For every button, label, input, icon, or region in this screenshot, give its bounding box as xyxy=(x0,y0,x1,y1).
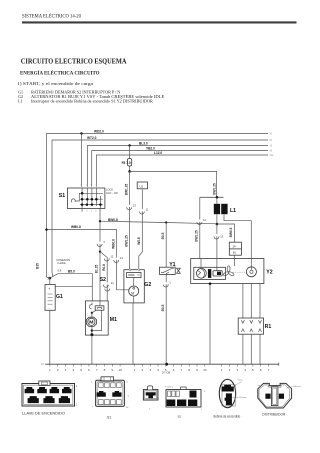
motor M ring xyxy=(86,317,96,326)
fuse F8 lead xyxy=(129,146,131,159)
distributor black pin right xyxy=(279,394,284,399)
svg-text:WB0.8: WB0.8 xyxy=(111,239,115,249)
svg-text:9: 9 xyxy=(196,368,198,372)
coil connector top pin hat xyxy=(222,385,234,392)
node fuse output junction xyxy=(128,170,131,173)
svg-text:6: 6 xyxy=(173,368,175,372)
node M1 coil junction xyxy=(91,312,93,314)
svg-text:B35: B35 xyxy=(35,263,39,269)
svg-text:YB2.0: YB2.0 xyxy=(146,146,155,150)
svg-text:L12.0: L12.0 xyxy=(154,151,162,155)
G2 rotor circle xyxy=(129,286,139,296)
wire battery positive link xyxy=(55,285,92,287)
svg-text:B5.0: B5.0 xyxy=(68,269,75,273)
svg-text:F8 7.5: F8 7.5 xyxy=(122,161,131,165)
svg-text:Folismo: Folismo xyxy=(239,397,247,399)
wire L1 left terminal drop to Y2 xyxy=(199,197,201,258)
Y2 inner assembly box xyxy=(194,267,226,279)
svg-text:6: 6 xyxy=(88,368,90,372)
distributor connector shell octagon xyxy=(258,383,292,408)
svg-text:Y2: Y2 xyxy=(266,270,272,276)
S1 connector top row cavities xyxy=(99,383,122,388)
svg-text:S2: S2 xyxy=(178,415,182,419)
Y2 rotor to cap dashed link xyxy=(233,271,246,273)
svg-text:BW0.5: BW0.5 xyxy=(229,227,233,237)
connector cup on S2 chain xyxy=(97,240,105,246)
G2 brush dot xyxy=(133,287,135,289)
R1 contact arrows xyxy=(241,320,261,332)
node ground rail junction xyxy=(165,363,168,366)
coil L1 winding blocks xyxy=(214,204,220,214)
wire Y2 ground xyxy=(209,284,211,365)
Y1 switch diagonal xyxy=(161,269,174,273)
svg-text:4: 4 xyxy=(72,368,74,372)
S1 connector latch tab xyxy=(101,377,114,381)
small connector latch tab xyxy=(148,386,153,390)
wire W1 drop to battery xyxy=(47,277,50,278)
ruler ticks xyxy=(50,364,269,366)
node battery positive junction xyxy=(49,277,52,280)
battery G1 box xyxy=(45,285,55,311)
connector cup on diagnostic drop xyxy=(139,208,148,214)
svg-text:G2: G2 xyxy=(144,282,151,288)
ignition coil connector oval xyxy=(219,379,235,407)
svg-text:R1: R1 xyxy=(265,324,272,330)
small connector black pin xyxy=(146,392,156,398)
Y2 pickup detail xyxy=(198,269,205,277)
valve Y1 solenoid box xyxy=(160,267,176,274)
svg-text:Fusible: Fusible xyxy=(57,261,66,265)
svg-text:8: 8 xyxy=(188,368,190,372)
svg-text:B0.5: B0.5 xyxy=(161,304,165,311)
svg-text:1: 1 xyxy=(49,368,51,372)
G2 terminal posts xyxy=(129,269,131,271)
S1 contact dots row3 xyxy=(81,203,84,206)
starter M1 box xyxy=(85,301,108,335)
small 1P connector shell xyxy=(143,390,158,400)
ignition key connector shell xyxy=(22,384,75,407)
relay connector top tabs xyxy=(181,387,187,390)
svg-text:S2: S2 xyxy=(100,277,106,283)
S1 connector shell xyxy=(96,380,125,406)
svg-text:SISTEMA ELÉCTRICO 14-20: SISTEMA ELÉCTRICO 14-20 xyxy=(22,13,82,19)
wire G2 ground xyxy=(133,296,135,303)
wire fuse to node xyxy=(129,166,131,171)
svg-text:10: 10 xyxy=(203,368,207,372)
L1 primary lead xyxy=(216,197,218,204)
svg-text:G1: G1 xyxy=(56,294,63,300)
node L1 primary junction xyxy=(216,196,219,199)
node Y2 ground junction xyxy=(209,282,212,285)
ignition key pins top row xyxy=(25,387,72,393)
ignition key connector latch tab xyxy=(39,381,50,385)
wire L1 center drop to Y2 xyxy=(216,224,218,258)
svg-text:7: 7 xyxy=(268,368,270,372)
svg-text:1: 1 xyxy=(134,368,136,372)
wire W2 drop to link xyxy=(51,273,54,277)
wire W2 WT2.0 bus xyxy=(52,140,268,273)
svg-text:ACC - ON: ACC - ON xyxy=(106,191,118,195)
svg-text:LLAVE DE ENCENDIDO: LLAVE DE ENCENDIDO xyxy=(22,410,65,415)
svg-text:R0.8: R0.8 xyxy=(102,264,106,271)
relay connector black pins bottom xyxy=(167,400,176,407)
svg-text:8: 8 xyxy=(104,368,106,372)
connector cup S2 upper xyxy=(104,255,114,261)
wire L1 secondary high tension xyxy=(224,215,251,267)
S1 contact dots row1 xyxy=(81,192,84,195)
svg-text:WT2.0: WT2.0 xyxy=(87,136,97,140)
pin terminal labels at bus right ends xyxy=(270,134,275,158)
svg-text:7: 7 xyxy=(96,368,98,372)
node S2 tap xyxy=(99,251,101,253)
motor M circle xyxy=(88,318,95,325)
fusible link element xyxy=(48,274,58,280)
node S1 output junction xyxy=(99,220,101,222)
svg-text:9: 9 xyxy=(111,368,113,372)
svg-text:L1: L1 xyxy=(18,99,23,104)
svg-text:M1: M1 xyxy=(110,317,117,323)
svg-text:5: 5 xyxy=(80,368,82,372)
relay connector black pin top xyxy=(190,391,197,398)
Y2 rotor lobes xyxy=(223,266,235,277)
ignition key pins bottom row xyxy=(28,396,70,403)
wire regulator to rotor xyxy=(133,278,135,286)
wire W1 WD2.0 bus xyxy=(47,134,269,278)
svg-text:BW1.25: BW1.25 xyxy=(124,184,128,196)
wire S1 pin1 drop xyxy=(81,134,83,187)
wire Y2 internal feeds xyxy=(200,259,202,269)
connector cup S2 lower b xyxy=(105,289,110,292)
connector cup below Y1 xyxy=(163,281,171,287)
wire L1 bottom lead xyxy=(216,214,218,224)
connector cup on fuse drop xyxy=(127,203,137,209)
svg-text:S1: S1 xyxy=(107,415,111,419)
wire S1-S2 chain xyxy=(99,221,101,301)
wire from diagnostic box to G2 xyxy=(141,190,143,253)
svg-text:5: 5 xyxy=(165,368,167,372)
svg-text:L1: L1 xyxy=(230,208,236,214)
svg-text:2P: 2P xyxy=(233,244,236,248)
svg-text:Interruptor de encendido Bobin: Interruptor de encendido Bobina de encen… xyxy=(31,99,153,104)
node M1 return junction xyxy=(91,329,93,331)
connector cup on WB0.8 drop xyxy=(114,256,124,262)
svg-text:W0.8: W0.8 xyxy=(137,237,141,245)
svg-text:M: M xyxy=(89,320,94,325)
Y2 module outline xyxy=(213,271,222,276)
resistor block R1 box xyxy=(238,318,263,334)
ruler end label D4 xyxy=(278,363,280,366)
wire Y1 to ground rail xyxy=(165,275,167,364)
svg-text:10: 10 xyxy=(118,368,122,372)
connector cup on L1 center drop xyxy=(214,234,224,239)
svg-text:BW1.25: BW1.25 xyxy=(194,230,198,242)
distributor center slot xyxy=(271,387,278,406)
svg-text:B1.25: B1.25 xyxy=(95,265,99,274)
svg-text:WD2.0: WD2.0 xyxy=(94,129,104,133)
svg-text:3: 3 xyxy=(65,368,67,372)
svg-text:1: 1 xyxy=(221,368,223,372)
S1 contact row lines xyxy=(82,192,103,194)
node M1 ground junction xyxy=(90,333,93,336)
wire W5 L12.0 bus xyxy=(96,155,268,187)
svg-text:Vista: Vista xyxy=(238,379,244,382)
G2 regulator contact dashes xyxy=(128,274,134,276)
svg-text:M: M xyxy=(131,292,134,296)
Y2 igniter black block xyxy=(208,269,211,278)
S1 key linkage xyxy=(75,193,82,201)
svg-text:4: 4 xyxy=(244,368,246,372)
svg-text:BL3.0: BL3.0 xyxy=(139,141,148,145)
svg-text:B1: B1 xyxy=(233,250,237,254)
wire BW0.8 accessory rail from S1 xyxy=(100,221,217,224)
svg-text:Folismo: Folismo xyxy=(293,386,301,388)
svg-text:6: 6 xyxy=(260,368,262,372)
S1 connector pin numbers xyxy=(91,382,130,410)
node junction on W3 at fuse tap xyxy=(128,144,130,146)
svg-text:B0.5: B0.5 xyxy=(161,232,165,239)
Y2 module chip xyxy=(217,272,221,275)
pin numbers above S1 xyxy=(80,185,97,187)
wire L1 to noise filter column xyxy=(217,224,235,242)
svg-text:U2: U2 xyxy=(139,184,143,188)
M1 solenoid coil hook xyxy=(89,303,92,309)
node Y1 branch junction xyxy=(165,221,167,223)
S1 key symbol xyxy=(71,199,75,202)
ground rail ruler line xyxy=(45,363,278,365)
M1 contact return wire xyxy=(92,310,102,330)
S1 connector middle black pins xyxy=(97,391,106,397)
wire fused feed to L1 xyxy=(130,171,217,197)
svg-text:4: 4 xyxy=(157,368,159,372)
M1 contact box xyxy=(95,306,104,310)
ruler numbers xyxy=(49,368,270,372)
wire battery post xyxy=(49,278,51,284)
alternator G2 box xyxy=(124,270,144,303)
relay connector top cavities xyxy=(168,391,180,397)
wire battery ground xyxy=(49,310,51,364)
connector cup on L1 left drop xyxy=(197,218,207,224)
svg-text:BW0.8: BW0.8 xyxy=(108,218,118,222)
wire S2 link xyxy=(100,252,107,301)
S1 connector bottom row cavities xyxy=(99,400,122,405)
svg-text:5: 5 xyxy=(252,368,254,372)
wire coil junction to motor xyxy=(91,313,93,317)
svg-text:2: 2 xyxy=(142,368,144,372)
svg-text:BW1.25: BW1.25 xyxy=(124,235,128,247)
wire Y2 to R1 feeds xyxy=(242,284,244,318)
distributor black pin left xyxy=(265,394,270,399)
battery G1 cell dashes xyxy=(48,294,53,304)
Y2 pickup coil circle xyxy=(197,268,207,278)
wire B5.0 feed to starter xyxy=(58,274,92,301)
M1 coil to contact link xyxy=(92,310,96,312)
wire WB0.8 battery tap rail xyxy=(47,230,129,290)
S1 internal column wires xyxy=(81,188,83,212)
svg-text:3: 3 xyxy=(149,368,151,372)
svg-text:WB0.8: WB0.8 xyxy=(71,225,81,229)
coil connector cavity outline xyxy=(222,385,235,406)
wire W3 BL3.0 bus xyxy=(87,146,268,187)
svg-text:2: 2 xyxy=(229,368,231,372)
filter 2P connector box xyxy=(229,242,241,255)
connector cup S2 lower a xyxy=(103,281,114,287)
svg-text:Bobina de encendido: Bobina de encendido xyxy=(214,414,241,418)
svg-text:2: 2 xyxy=(57,368,59,372)
wire Y1 feed drop xyxy=(165,223,167,268)
Y2 cap circle xyxy=(246,267,256,277)
svg-text:DISTRIBUIDOR: DISTRIBUIDOR xyxy=(262,411,285,416)
svg-text:3: 3 xyxy=(236,368,238,372)
ignition coil L1 top rail xyxy=(200,196,224,198)
relay connector shell xyxy=(166,390,201,408)
svg-text:CIRCUITO ELECTRICO ESQUEMA: CIRCUITO ELECTRICO ESQUEMA xyxy=(21,58,127,65)
switch S1 box xyxy=(67,188,105,208)
node junction on W1 at S1 feed xyxy=(80,132,82,134)
header rule xyxy=(22,21,297,23)
svg-text:7: 7 xyxy=(181,368,183,372)
G2 regulator box xyxy=(127,273,141,278)
Y2 cap center electrode xyxy=(250,270,253,273)
wire S2 feed into contact xyxy=(99,301,101,306)
wire fused drop to G2 regulator xyxy=(129,171,131,269)
Y1 valve hourglass xyxy=(177,268,181,273)
coil connector center pin xyxy=(225,393,232,405)
svg-text:S1: S1 xyxy=(59,193,65,199)
diagnostic connector box 12 xyxy=(137,182,147,189)
svg-text:Folismo: Folismo xyxy=(165,387,173,389)
wire motor to bottom xyxy=(91,326,93,336)
svg-text:ENERGÍA ELÉCTRICA CIRCUITO: ENERGÍA ELÉCTRICA CIRCUITO xyxy=(20,68,100,76)
node L1 low junction xyxy=(216,223,219,226)
wire filter to Y2 xyxy=(234,255,236,258)
wire R1 to ground rail xyxy=(242,334,244,364)
svg-text:BW1.25: BW1.25 xyxy=(212,183,216,195)
svg-text:0.8: 0.8 xyxy=(58,269,62,273)
M1 contact bridge xyxy=(98,307,102,309)
fuse F8 body xyxy=(128,159,132,167)
distributor Y2 box xyxy=(191,259,264,284)
node WB0.8 tap junction xyxy=(45,228,47,230)
wire M1 ground xyxy=(91,335,93,364)
pin numbers below S1 xyxy=(81,211,101,213)
S1 contact dots row2 xyxy=(81,198,84,201)
wire S1 output drop xyxy=(99,208,101,221)
wire W4 YB2.0 bus xyxy=(92,151,268,187)
